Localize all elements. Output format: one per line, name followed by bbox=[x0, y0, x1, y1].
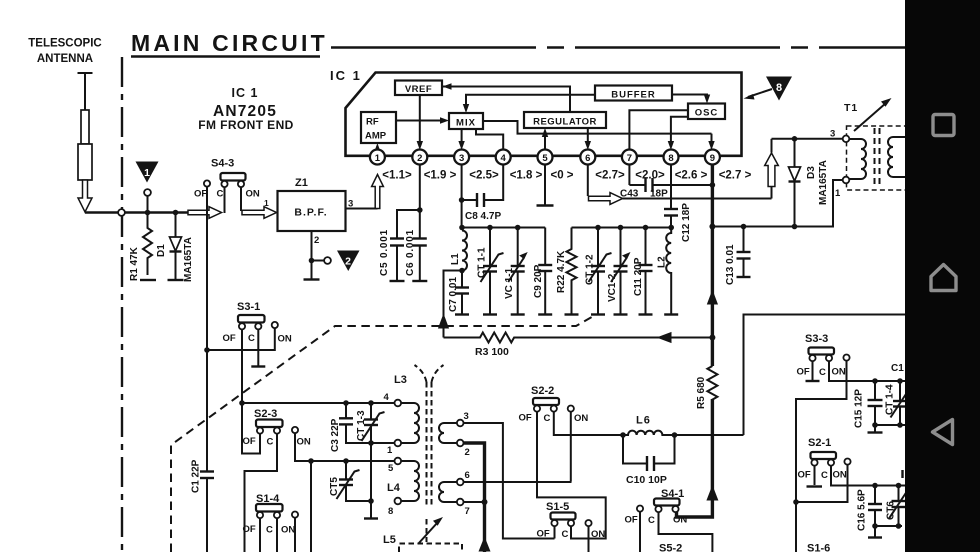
wire L3 top bbox=[242, 402, 414, 404]
node CT1-3 bottom bbox=[368, 440, 374, 446]
T1 pin 3 terminal bbox=[843, 136, 850, 143]
svg-text:3: 3 bbox=[459, 153, 464, 164]
ground S3-3 bbox=[806, 380, 820, 382]
svg-text:1: 1 bbox=[264, 198, 269, 208]
varicap VC1-1 bbox=[508, 228, 528, 314]
diode D3 bbox=[789, 139, 801, 227]
node bus2 C11 bbox=[643, 225, 649, 231]
nav icon back triangle bbox=[933, 420, 953, 445]
ground R1 bbox=[140, 279, 156, 281]
wire C5 top bbox=[397, 210, 420, 239]
IC1 outline bbox=[346, 73, 742, 156]
L5 adjust arrow bbox=[418, 517, 443, 544]
svg-text:FM FRONT END: FM FRONT END bbox=[198, 118, 293, 132]
ground C15 bbox=[868, 425, 883, 433]
node CT6 top bbox=[896, 483, 902, 489]
svg-text:4: 4 bbox=[501, 153, 507, 164]
wire pin6 to T1 branch bbox=[623, 198, 772, 200]
svg-text:ON: ON bbox=[673, 515, 687, 526]
capacitor C16 bbox=[868, 486, 882, 527]
svg-text:VREF: VREF bbox=[405, 84, 432, 95]
T1 primary coil bbox=[849, 139, 866, 179]
svg-text:<2.5>: <2.5> bbox=[469, 170, 499, 182]
svg-text:1: 1 bbox=[835, 188, 841, 199]
border left dash-dot bbox=[121, 57, 123, 552]
svg-text:5: 5 bbox=[388, 463, 394, 474]
wire MIX to pin3 with arrow bbox=[458, 129, 464, 150]
wire VREF to pin2 with arrow bbox=[417, 95, 423, 150]
terminal L3 pin2 bbox=[457, 440, 464, 447]
node CT1-3 top bbox=[368, 400, 374, 406]
svg-text:C: C bbox=[648, 515, 655, 526]
wire CT1-3 to ground bbox=[370, 443, 372, 518]
wire REGULATOR bottom to pin5 with arrow bbox=[542, 128, 548, 150]
svg-text:R1 47K: R1 47K bbox=[129, 246, 140, 281]
svg-text:C7 0.01: C7 0.01 bbox=[448, 277, 459, 312]
wire S2-3 OFF jog to L3 node bbox=[242, 403, 260, 454]
inductor L4 primary bbox=[401, 461, 419, 501]
ground C11 bbox=[639, 313, 653, 315]
title underline bbox=[131, 55, 320, 58]
ground S3-1 bbox=[251, 365, 265, 367]
wire S4-1 OF down bbox=[639, 512, 641, 552]
inductor L1 bbox=[462, 231, 467, 271]
terminal L3 pin4 bbox=[395, 400, 402, 407]
label IC1 AN7205 FM FRONT END bbox=[198, 86, 293, 132]
svg-text:CT 1-2: CT 1-2 bbox=[585, 254, 596, 285]
signal arrow into IC pin 1 bbox=[372, 175, 384, 209]
flow arrow on pin2 wire bbox=[479, 537, 491, 552]
svg-text:C: C bbox=[248, 333, 255, 344]
wire R3 feedback bbox=[444, 333, 713, 343]
node L6 right bbox=[672, 432, 678, 438]
node S3-1/C1 column bbox=[204, 347, 210, 353]
svg-text:S3-1: S3-1 bbox=[237, 301, 260, 313]
node C43/pin9 bbox=[710, 182, 716, 188]
svg-text:ON: ON bbox=[246, 189, 260, 200]
svg-text:2: 2 bbox=[314, 235, 319, 246]
svg-text:D3: D3 bbox=[806, 166, 817, 179]
capacitor C43 bbox=[629, 178, 712, 192]
capacitor C1 bbox=[200, 472, 214, 552]
wire antenna to input node bbox=[85, 211, 188, 213]
wire S2-1 ON jog to x796 column bbox=[796, 465, 848, 502]
node CT1-4 bottom bbox=[897, 422, 903, 428]
ground C7 bbox=[455, 313, 469, 315]
capacitor C13 bbox=[737, 227, 751, 277]
svg-text:C: C bbox=[819, 367, 826, 378]
pin 7 bbox=[622, 150, 637, 165]
capacitor C6 bbox=[413, 210, 427, 280]
svg-text:3: 3 bbox=[464, 411, 469, 422]
svg-text:D1: D1 bbox=[156, 244, 167, 257]
wire riser top to L6 bbox=[571, 434, 623, 436]
wire S2-1 C to C16 bus bbox=[831, 466, 908, 486]
nav icon recents square bbox=[933, 115, 954, 136]
wire S2-3 C down bbox=[245, 434, 278, 552]
svg-text:S2-2: S2-2 bbox=[531, 385, 554, 397]
switch S2-2 bbox=[519, 398, 589, 424]
svg-text:RF: RF bbox=[366, 117, 379, 128]
ground S2-1 bbox=[807, 485, 823, 487]
terminal L4 pin5 bbox=[395, 458, 402, 465]
svg-text:REGULATOR: REGULATOR bbox=[533, 117, 597, 128]
ground R22 bbox=[565, 313, 579, 315]
svg-text:C10 10P: C10 10P bbox=[626, 474, 667, 486]
svg-text:8: 8 bbox=[776, 82, 782, 94]
ground D1 bbox=[168, 279, 184, 281]
node L1/C7 bbox=[459, 268, 465, 274]
node D3 bottom bbox=[792, 224, 798, 230]
svg-text:ON: ON bbox=[833, 470, 847, 481]
svg-text:C1 22P: C1 22P bbox=[191, 459, 202, 493]
diode D1 bbox=[170, 214, 182, 280]
svg-text:B.P.F.: B.P.F. bbox=[294, 207, 327, 219]
switch S4-3 bbox=[194, 173, 260, 200]
svg-text:1: 1 bbox=[144, 167, 150, 179]
node bus1 VC1-1 bbox=[515, 225, 521, 231]
wire pin5 down bbox=[544, 164, 546, 205]
trimmer CT1-3 bbox=[362, 403, 385, 443]
svg-text:ON: ON bbox=[574, 413, 588, 424]
svg-text:OF: OF bbox=[194, 189, 207, 200]
trimmer CT6 bbox=[889, 486, 907, 527]
svg-text:S2-3: S2-3 bbox=[254, 408, 277, 420]
node C15 bottom bbox=[872, 422, 878, 428]
wire S2-2 C to L6 bbox=[554, 412, 623, 435]
tank bus 2 bbox=[572, 227, 672, 229]
svg-text:<1.9 >: <1.9 > bbox=[424, 170, 457, 182]
svg-text:7: 7 bbox=[465, 506, 470, 517]
wire S3-3 ON jog to x796 column bbox=[796, 361, 847, 552]
node CT6 bottom bbox=[896, 523, 902, 529]
capacitor C9 bbox=[538, 228, 552, 314]
svg-text:AMP: AMP bbox=[365, 131, 387, 142]
flow arrow on pin9 wire bbox=[707, 290, 718, 305]
svg-text:VC 1-1: VC 1-1 bbox=[504, 267, 515, 299]
svg-text:VC1-2: VC1-2 bbox=[607, 273, 618, 302]
wire S3-1 C to ground bbox=[257, 329, 259, 365]
capacitor C3 bbox=[339, 403, 395, 443]
svg-text:1: 1 bbox=[375, 153, 381, 164]
svg-text:CT 1-1: CT 1-1 bbox=[477, 247, 488, 278]
wire L3 pin2 thick to bottom bbox=[464, 443, 485, 552]
wire S4-1 C to S5-2 bbox=[659, 512, 713, 552]
pin 1 bbox=[370, 150, 385, 165]
wire S3-1 OFF down to L3 bbox=[241, 329, 243, 403]
wire S4-3 OFF down long to S3-1 area bbox=[206, 187, 208, 350]
svg-text:L6: L6 bbox=[636, 415, 651, 427]
wire REGULATOR bottom to pin6 with arrow bbox=[585, 128, 591, 150]
svg-text:R22 4.7K: R22 4.7K bbox=[556, 250, 567, 293]
flow arrow left on R3 wire bbox=[657, 332, 672, 343]
svg-text:8: 8 bbox=[668, 153, 673, 164]
ground C5 bbox=[390, 280, 405, 282]
node CT5 bottom junction bbox=[368, 498, 374, 504]
core L3/L4 bbox=[415, 365, 444, 506]
node S2-1/x796 bbox=[793, 499, 799, 505]
node pin3/C8 bbox=[459, 197, 465, 203]
wire OSC left to pin8 with arrow bbox=[668, 117, 688, 150]
svg-text:IC 1: IC 1 bbox=[232, 86, 259, 100]
svg-text:IC 1: IC 1 bbox=[330, 68, 362, 83]
wire bus to pin9 with arrow bbox=[708, 134, 714, 150]
svg-text:6: 6 bbox=[585, 153, 590, 164]
node border feedthrough open circle bbox=[118, 209, 125, 216]
ground CT1-1 bbox=[483, 313, 497, 315]
svg-text:C: C bbox=[267, 437, 274, 448]
inductor L3 primary bbox=[401, 403, 419, 443]
node pin9/T1 return bbox=[709, 224, 715, 230]
signal arrow pin6 out bbox=[589, 193, 623, 205]
wire S4-3 ON down bbox=[240, 187, 242, 211]
svg-text:L4: L4 bbox=[387, 482, 401, 494]
wire MIX bottom to pin4 bbox=[476, 129, 503, 150]
T1 adjust arrow bbox=[854, 98, 892, 131]
node C16 bottom bbox=[872, 523, 878, 529]
svg-text:OF: OF bbox=[243, 524, 256, 535]
svg-text:<2.7 >: <2.7 > bbox=[719, 170, 752, 182]
wire S1-5 OFF down bbox=[554, 526, 556, 538]
resistor R5 bbox=[711, 338, 714, 367]
svg-text:S1-6: S1-6 bbox=[807, 543, 830, 552]
svg-text:C: C bbox=[544, 413, 551, 424]
svg-text:TELESCOPIC: TELESCOPIC bbox=[28, 38, 101, 50]
signal arrow into S4-3 bbox=[188, 207, 222, 219]
wire REGULATOR top to VREF with arrow bbox=[443, 83, 571, 112]
wire BUFFER right to OSC with arrow bbox=[672, 95, 710, 104]
wire L4 pin6 to L6 riser bbox=[464, 481, 572, 483]
svg-text:C: C bbox=[821, 470, 828, 481]
resistor R22 bbox=[567, 228, 577, 314]
svg-text:C6 0.001: C6 0.001 bbox=[405, 229, 416, 276]
varicap VC1-2 bbox=[611, 228, 631, 314]
svg-text:OF: OF bbox=[797, 367, 810, 378]
wire RF AMP to MIX with arrow bbox=[396, 117, 449, 123]
svg-text:OF: OF bbox=[798, 470, 811, 481]
node S3-1 lead / L3 bbox=[239, 400, 245, 406]
nav icon home bbox=[931, 265, 956, 291]
svg-text:CT6: CT6 bbox=[886, 501, 897, 520]
svg-text:C15 12P: C15 12P bbox=[854, 389, 865, 428]
ground C9 bbox=[538, 313, 552, 315]
trimmer CT5 bbox=[337, 461, 372, 501]
wire S2-1 OFF to ground bbox=[814, 466, 816, 485]
wire BUFFER left to MIX top with arrow bbox=[463, 95, 595, 113]
svg-text:2: 2 bbox=[465, 447, 470, 458]
terminal L4 pin8 bbox=[395, 498, 402, 505]
wire S1-5 C to bottom rail bbox=[571, 526, 606, 538]
rail to S3-3 section bbox=[744, 315, 909, 436]
svg-text:OF: OF bbox=[625, 515, 638, 526]
capacitor C12 bbox=[664, 209, 678, 228]
node C15 top bbox=[872, 378, 878, 384]
svg-text:5: 5 bbox=[542, 153, 548, 164]
block OSC bbox=[688, 104, 725, 120]
svg-text:C: C bbox=[266, 525, 273, 536]
block REGULATOR bbox=[524, 112, 606, 128]
terminal L3 pin3 bbox=[457, 420, 464, 427]
node antenna/R1 junction bbox=[145, 210, 151, 216]
flag 2 bbox=[337, 251, 360, 272]
svg-text:S4-3: S4-3 bbox=[211, 158, 234, 170]
node CT1-4 top bbox=[897, 378, 903, 384]
svg-text:C3 22P: C3 22P bbox=[330, 418, 341, 452]
wire pin7 down bbox=[628, 164, 630, 185]
wire S1-5 ON down bbox=[588, 526, 590, 552]
svg-text:3: 3 bbox=[830, 129, 835, 140]
wire Z1 pin2 down bbox=[311, 231, 313, 279]
wire L1 tap jog bbox=[444, 271, 463, 338]
wire MIX right to bus and pin5 riser bbox=[483, 121, 712, 134]
switch S2-3 bbox=[243, 420, 311, 448]
wire L4 pin7 to thick wire bbox=[464, 501, 485, 503]
trimmer CT1-1 bbox=[481, 228, 504, 314]
block BUFFER bbox=[595, 86, 672, 101]
pin 9 bbox=[705, 150, 720, 165]
switch S1-5 bbox=[537, 513, 606, 541]
wire S1-4 OFF down bbox=[259, 518, 261, 552]
trimmer CT1-2 bbox=[589, 228, 612, 314]
node D3 top bbox=[792, 136, 798, 142]
ground VC1-1 bbox=[511, 313, 525, 315]
svg-text:L3: L3 bbox=[394, 374, 407, 386]
node CT5 top bbox=[343, 458, 349, 464]
flow arrow on R5 wire bbox=[706, 485, 718, 501]
svg-text:9: 9 bbox=[710, 153, 715, 164]
svg-text:<2.0>: <2.0> bbox=[635, 170, 665, 182]
block VREF bbox=[395, 81, 442, 96]
arrow flag8 to IC bbox=[744, 89, 773, 100]
signal arrow up to T1 node bbox=[765, 139, 779, 199]
flag 1 bbox=[136, 162, 159, 183]
wire pin8 down bbox=[670, 164, 672, 209]
signal arrow S4-3 to Z1 bbox=[242, 207, 277, 219]
switch S3-1 bbox=[223, 315, 292, 345]
transformer T1 dashed box bbox=[847, 126, 908, 190]
svg-text:S5-2: S5-2 bbox=[659, 543, 682, 552]
pin 2 bbox=[412, 150, 427, 165]
svg-text:C43: C43 bbox=[620, 189, 639, 200]
node bus2 L2 bbox=[668, 225, 674, 231]
svg-text:Z1: Z1 bbox=[295, 177, 308, 189]
svg-text:OF: OF bbox=[537, 529, 550, 540]
node pin2/C5C6 bbox=[417, 207, 423, 213]
svg-text:MA165TA: MA165TA bbox=[818, 160, 829, 205]
wire L6 right to riser rail bbox=[675, 434, 744, 436]
ground L3/L4 bbox=[364, 517, 378, 519]
node bus2 VC1-2 bbox=[618, 225, 624, 231]
svg-text:C1: C1 bbox=[891, 363, 904, 374]
svg-text:CT 1-3: CT 1-3 bbox=[356, 410, 367, 441]
svg-text:S3-3: S3-3 bbox=[805, 333, 828, 345]
wire T1 pin3 line bbox=[772, 138, 843, 140]
svg-text:C9 20P: C9 20P bbox=[533, 264, 544, 298]
node x311 riser bbox=[308, 458, 314, 464]
wire pin3 down to tank bbox=[461, 164, 463, 228]
wire S2-2 ON / L6 riser bbox=[570, 412, 572, 482]
resistor R1 bbox=[143, 214, 152, 275]
svg-text:ON: ON bbox=[297, 437, 311, 448]
svg-text:T1: T1 bbox=[844, 102, 858, 114]
wire S2-2 OFF jog to S1-5 ON bbox=[537, 412, 606, 539]
svg-text:C8 4.7P: C8 4.7P bbox=[465, 211, 501, 222]
flag 1 terminal bbox=[144, 189, 151, 210]
ground pin5 bbox=[537, 204, 554, 206]
capacitor C8 bbox=[462, 164, 504, 207]
pin 3 bbox=[454, 150, 469, 165]
ground C13 bbox=[737, 276, 751, 278]
svg-text:OF: OF bbox=[243, 436, 256, 447]
inductor L6 bbox=[623, 431, 674, 435]
svg-text:BUFFER: BUFFER bbox=[611, 90, 656, 101]
svg-text:<2.6 >: <2.6 > bbox=[675, 170, 708, 182]
svg-text:C13 0.01: C13 0.01 bbox=[725, 244, 736, 285]
block Z1 B.P.F. bbox=[278, 191, 346, 231]
wire pin6 down bbox=[587, 164, 589, 196]
rail C16/CT6 bottom bbox=[875, 525, 902, 527]
node bus2 CT1-2 bbox=[595, 225, 601, 231]
svg-text:R3 100: R3 100 bbox=[475, 346, 509, 358]
wire S3-3 OFF to ground bbox=[812, 361, 814, 380]
L5 dashed box bbox=[399, 544, 462, 552]
terminal L3 pin1 bbox=[395, 440, 402, 447]
node D1 junction bbox=[173, 210, 179, 216]
flag 8 bbox=[766, 77, 792, 101]
node C13 bbox=[741, 224, 747, 230]
wire R5 thick down to S4-1 bbox=[677, 399, 713, 517]
wire S3-1 ON to C1 column bbox=[207, 328, 275, 350]
svg-text:<0 >: <0 > bbox=[550, 170, 573, 182]
T1 core bbox=[875, 128, 880, 188]
partial label mark bbox=[901, 470, 903, 478]
capacitor C7 bbox=[455, 271, 469, 314]
wire L3 pin3 to S1-5 OFF bbox=[464, 423, 555, 539]
ground Z1 bbox=[304, 278, 320, 280]
ground L2 bbox=[664, 313, 678, 315]
inductor L2 bbox=[666, 228, 671, 314]
svg-text:L1: L1 bbox=[450, 253, 461, 265]
svg-text:C11 20P: C11 20P bbox=[633, 257, 644, 296]
svg-text:6: 6 bbox=[465, 470, 470, 481]
node pin9/R3 bbox=[709, 335, 715, 341]
switch S4-1 bbox=[625, 499, 688, 527]
svg-text:MIX: MIX bbox=[456, 118, 476, 129]
terminal open circle Z1 pin2 bbox=[314, 257, 331, 264]
svg-text:C: C bbox=[217, 189, 224, 200]
svg-text:ON: ON bbox=[278, 334, 292, 345]
svg-text:ON: ON bbox=[281, 525, 295, 536]
svg-text:L5: L5 bbox=[383, 534, 396, 546]
switch S3-3 bbox=[797, 348, 850, 379]
flow arrow up on tap bbox=[438, 314, 449, 329]
svg-text:C12 18P: C12 18P bbox=[681, 203, 692, 242]
svg-text:7: 7 bbox=[627, 153, 632, 164]
svg-text:<1.1>: <1.1> bbox=[382, 170, 412, 182]
rail C15/CT1-4 bottom bbox=[875, 424, 908, 426]
svg-text:2: 2 bbox=[345, 256, 351, 268]
tank bus 1 bbox=[462, 228, 545, 231]
capacitor C5 bbox=[390, 239, 404, 281]
wire S4-3 C to main wire bbox=[224, 187, 226, 213]
svg-text:CT 1-4: CT 1-4 bbox=[885, 384, 896, 415]
svg-text:ON: ON bbox=[832, 367, 846, 378]
telescopic antenna symbol bbox=[78, 73, 93, 212]
block RF AMP bbox=[361, 112, 396, 143]
wire S2-3 ON to L4 pin5 bbox=[295, 433, 395, 461]
wire S1-4 ON down bbox=[294, 518, 296, 552]
svg-text:ANTENNA: ANTENNA bbox=[37, 53, 93, 65]
